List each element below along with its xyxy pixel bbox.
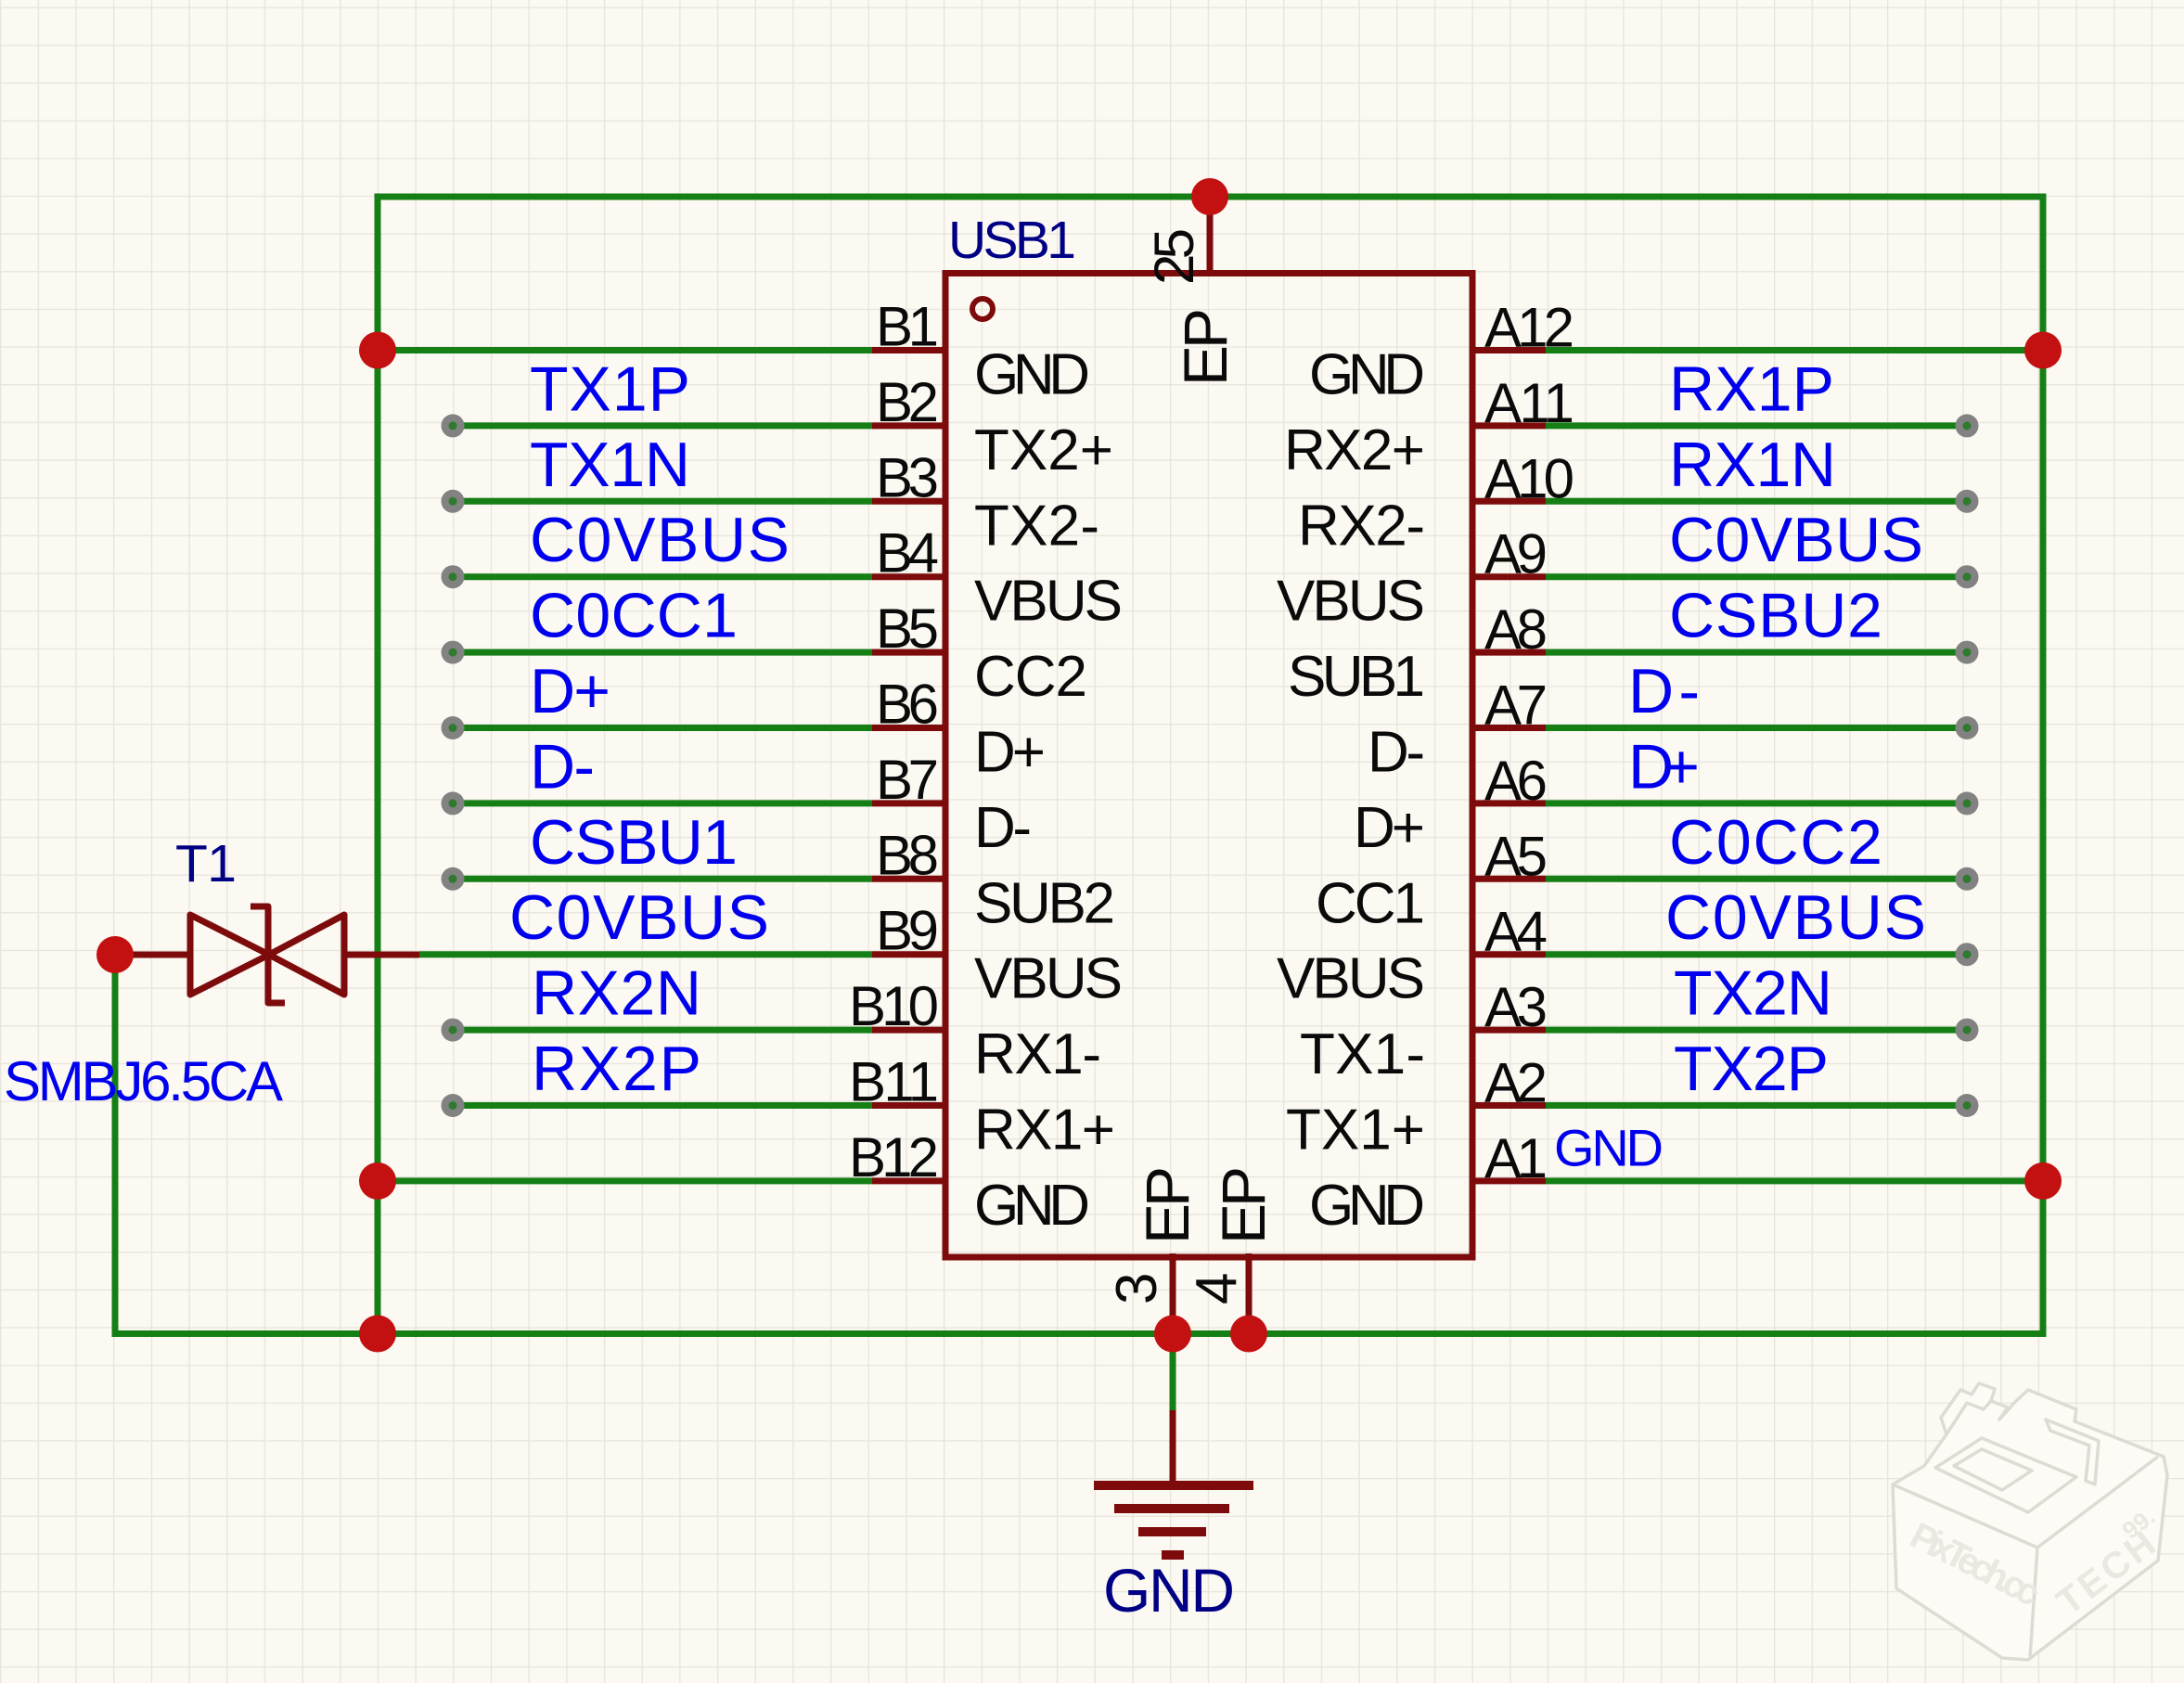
svg-text:B2: B2	[876, 371, 939, 433]
wire pin B12 to GND net	[378, 1177, 872, 1184]
wire GND net bottom horizontal	[112, 1330, 2047, 1337]
endpoint pin A7	[1956, 716, 1979, 739]
pin A1 stub	[1471, 1177, 1546, 1184]
junction EP3 to GND net	[1154, 1316, 1191, 1353]
svg-text:A9: A9	[1484, 523, 1548, 585]
endpoint pin B8	[442, 867, 465, 891]
junction left vertical to bottom wire	[359, 1316, 396, 1353]
pin 4 EP stub	[1246, 1253, 1253, 1334]
junction T1 left	[96, 936, 134, 973]
svg-text:VBUS: VBUS	[1277, 947, 1425, 1011]
wire pin B1 to GND net	[378, 347, 872, 353]
endpoint pin B11	[442, 1094, 465, 1117]
svg-text:A12: A12	[1484, 297, 1574, 359]
svg-text:RX1-: RX1-	[974, 1022, 1101, 1086]
svg-text:B1: B1	[876, 296, 939, 358]
svg-text:A2: A2	[1484, 1052, 1548, 1114]
pin A5 stub	[1471, 876, 1546, 882]
svg-text:B6: B6	[876, 674, 939, 736]
USB1 pin-1 marker circle	[972, 299, 993, 319]
svg-text:25: 25	[1143, 228, 1205, 285]
pin B12 stub	[872, 1177, 946, 1184]
endpoint pin A11	[1956, 414, 1979, 437]
svg-text:D+: D+	[530, 656, 610, 726]
svg-text:A11: A11	[1484, 372, 1574, 434]
pin 3 EP stub	[1170, 1253, 1176, 1334]
svg-text:B5: B5	[876, 597, 939, 660]
wire net C0VBUS from T1 to pin B9	[419, 951, 872, 957]
svg-text:RX1N: RX1N	[1669, 430, 1836, 500]
wire net TX1P to pin B2	[453, 422, 872, 429]
wire net TX1N to pin B3	[453, 498, 872, 505]
svg-text:D-: D-	[530, 731, 595, 802]
junction B1 wire	[359, 332, 396, 369]
wire pin A2 net TX2P	[1546, 1102, 1967, 1109]
wire pin A3 net TX2N	[1546, 1027, 1967, 1034]
svg-text:RX2-: RX2-	[1298, 494, 1425, 558]
svg-text:VBUS: VBUS	[1277, 570, 1425, 634]
svg-text:A7: A7	[1484, 674, 1548, 737]
svg-text:A1: A1	[1484, 1127, 1548, 1189]
wire GND net right vertical	[2040, 194, 2047, 1338]
wire GND net top horizontal	[375, 194, 2047, 200]
pin B10 stub	[872, 1027, 946, 1034]
svg-text:D-: D-	[974, 796, 1032, 860]
svg-text:B9: B9	[876, 900, 939, 962]
diode T1 left lead wire	[130, 952, 192, 958]
wire GND net stub to ground symbol	[1170, 1334, 1176, 1415]
svg-text:B4: B4	[876, 522, 939, 585]
svg-text:TX2+: TX2+	[974, 418, 1113, 482]
junction B12 wire	[359, 1163, 396, 1200]
pin B9 stub	[872, 951, 946, 957]
pin B7 stub	[872, 800, 946, 806]
pin B11 stub	[872, 1102, 946, 1109]
diode T1 right lead wire	[344, 952, 419, 958]
connector USB1 body	[945, 274, 1472, 1258]
svg-text:3: 3	[1105, 1273, 1169, 1304]
svg-text:TX2P: TX2P	[1674, 1034, 1829, 1104]
wire net RX2P to pin B11	[453, 1102, 872, 1109]
svg-text:RX2P: RX2P	[532, 1034, 701, 1104]
pin A11 stub	[1471, 422, 1546, 429]
endpoint pin B3	[442, 490, 465, 513]
junction A12 wire	[2024, 332, 2062, 369]
svg-text:CC2: CC2	[974, 645, 1087, 709]
pin A10 stub	[1471, 498, 1546, 505]
svg-text:SUB2: SUB2	[974, 871, 1115, 935]
svg-text:RX2N: RX2N	[532, 958, 701, 1029]
svg-text:RX2+: RX2+	[1284, 418, 1425, 482]
svg-text:GND: GND	[1554, 1118, 1664, 1176]
pin A7 stub	[1471, 725, 1546, 731]
svg-text:RX1P: RX1P	[1669, 353, 1834, 424]
wire pin A6 net D+	[1546, 800, 1967, 806]
svg-text:D+: D+	[1354, 796, 1425, 860]
endpoint pin B2	[442, 414, 465, 437]
svg-text:CSBU2: CSBU2	[1669, 581, 1882, 651]
endpoint pin A3	[1956, 1019, 1979, 1042]
svg-text:B3: B3	[876, 446, 939, 508]
wire pin A11 net RX1P	[1546, 422, 1967, 429]
svg-text:C0VBUS: C0VBUS	[509, 882, 769, 953]
pin 25 EP stub	[1207, 197, 1214, 276]
svg-text:CSBU1: CSBU1	[530, 807, 738, 878]
wire net C0CC1 to pin B5	[453, 649, 872, 656]
svg-text:B12: B12	[849, 1126, 939, 1188]
wire pin A7 net D-	[1546, 725, 1967, 731]
endpoint pin B6	[442, 716, 465, 739]
wire pin A9 net C0VBUS	[1546, 573, 1967, 580]
svg-text:VBUS: VBUS	[974, 570, 1123, 634]
wire pin A10 net RX1N	[1546, 498, 1967, 505]
svg-text:T1: T1	[175, 834, 237, 893]
endpoint pin A9	[1956, 565, 1979, 588]
svg-text:USB1: USB1	[948, 211, 1076, 270]
svg-text:TX1N: TX1N	[530, 430, 690, 500]
wire GND net left vertical	[375, 194, 381, 1338]
svg-text:GND: GND	[974, 343, 1090, 407]
svg-text:C0CC2: C0CC2	[1669, 807, 1882, 878]
pin A2 stub	[1471, 1102, 1546, 1109]
svg-text:C0CC1: C0CC1	[530, 581, 738, 651]
endpoint pin A2	[1956, 1094, 1979, 1117]
endpoint pin A10	[1956, 490, 1979, 513]
endpoint pin A8	[1956, 641, 1979, 664]
svg-text:B11: B11	[849, 1051, 939, 1113]
svg-text:TX2-: TX2-	[974, 494, 1099, 558]
svg-text:TX1P: TX1P	[530, 353, 690, 424]
svg-text:VBUS: VBUS	[974, 947, 1123, 1011]
pin A12 stub	[1471, 347, 1546, 353]
endpoint pin A5	[1956, 867, 1979, 891]
junction EP25 to GND net	[1191, 178, 1228, 215]
svg-text:TX1-: TX1-	[1300, 1022, 1425, 1086]
svg-text:C0VBUS: C0VBUS	[1669, 505, 1923, 575]
pin B8 stub	[872, 876, 946, 882]
svg-text:TX1+: TX1+	[1286, 1098, 1425, 1163]
svg-text:SMBJ6.5CA: SMBJ6.5CA	[4, 1050, 283, 1112]
pin B3 stub	[872, 498, 946, 505]
wire pin A8 net CSBU2	[1546, 649, 1967, 656]
svg-text:A3: A3	[1484, 976, 1548, 1038]
svg-text:EP: EP	[1171, 308, 1240, 386]
wire net C0VBUS to pin B4	[453, 573, 872, 580]
ground symbol lead	[1170, 1410, 1176, 1485]
svg-text:C0VBUS: C0VBUS	[1665, 882, 1926, 953]
svg-text:EP: EP	[1209, 1166, 1278, 1244]
endpoint pin A6	[1956, 791, 1979, 815]
pin A9 stub	[1471, 573, 1546, 580]
svg-text:A4: A4	[1484, 901, 1548, 963]
svg-text:GND: GND	[1309, 343, 1425, 407]
endpoint pin B5	[442, 641, 465, 664]
diode T1 body	[190, 906, 344, 1003]
pin A4 stub	[1471, 951, 1546, 957]
wire pin A12 to GND net	[1546, 347, 2043, 353]
svg-text:B7: B7	[876, 749, 939, 811]
svg-text:SUB1: SUB1	[1288, 645, 1425, 709]
svg-text:RX1+: RX1+	[974, 1098, 1115, 1163]
svg-text:C0VBUS: C0VBUS	[530, 505, 790, 575]
svg-text:D-: D-	[1368, 721, 1425, 785]
pin B6 stub	[872, 725, 946, 731]
svg-text:4: 4	[1185, 1273, 1249, 1304]
svg-text:A8: A8	[1484, 598, 1548, 661]
endpoint pin B4	[442, 565, 465, 588]
endpoint pin A4	[1956, 943, 1979, 966]
pin A6 stub	[1471, 800, 1546, 806]
wire pin A4 net C0VBUS	[1546, 951, 1967, 957]
wire net D- to pin B7	[453, 800, 872, 806]
svg-text:B10: B10	[849, 975, 939, 1037]
svg-text:B8: B8	[876, 824, 939, 886]
svg-text:A6: A6	[1484, 750, 1548, 812]
svg-text:GND: GND	[1103, 1556, 1235, 1625]
svg-text:CC1: CC1	[1316, 871, 1425, 935]
junction A1 wire	[2024, 1163, 2062, 1200]
svg-text:A10: A10	[1484, 447, 1574, 509]
svg-text:GND: GND	[1309, 1174, 1425, 1238]
pin B2 stub	[872, 422, 946, 429]
pin A3 stub	[1471, 1027, 1546, 1034]
svg-text:EP: EP	[1133, 1166, 1201, 1244]
wire net D+ to pin B6	[453, 725, 872, 731]
wire GND net far-left vertical from T1	[112, 955, 119, 1337]
endpoint pin B7	[442, 791, 465, 815]
pin A8 stub	[1471, 649, 1546, 656]
svg-text:D-: D-	[1628, 656, 1700, 726]
pin B4 stub	[872, 573, 946, 580]
wire net CSBU1 to pin B8	[453, 876, 872, 882]
svg-text:D+: D+	[974, 721, 1046, 785]
wire pin A5 net C0CC2	[1546, 876, 1967, 882]
wire pin A1 to GND net	[1546, 1177, 2043, 1184]
junction EP4 to GND net	[1230, 1316, 1267, 1353]
endpoint pin B10	[442, 1019, 465, 1042]
ground symbol	[1094, 1485, 1253, 1555]
svg-text:A5: A5	[1484, 825, 1548, 887]
pin B1 stub	[872, 347, 946, 353]
svg-text:D+: D+	[1628, 731, 1700, 802]
svg-text:GND: GND	[974, 1174, 1090, 1238]
pin B5 stub	[872, 649, 946, 656]
svg-text:TX2N: TX2N	[1674, 958, 1832, 1029]
wire net RX2N to pin B10	[453, 1027, 872, 1034]
